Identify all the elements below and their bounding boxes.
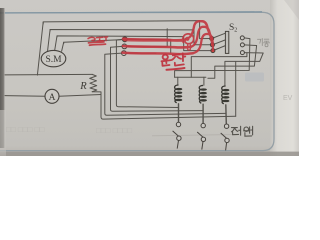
- wire W1 left drop to R line: [37, 22, 43, 75]
- wire W2 drop into S.M: [48, 30, 51, 51]
- R bottom link: [92, 92, 101, 95]
- red elbow down to pivot3: [208, 34, 213, 50]
- red riser 2: [192, 27, 205, 47]
- mid verticals under red: [166, 29, 168, 47]
- contact circles (run contacts): [122, 37, 128, 56]
- coil L3: [222, 86, 229, 104]
- right page edge light band: [270, 0, 299, 156]
- S2 start contacts: [240, 36, 244, 55]
- S2 blades: [212, 33, 226, 38]
- coil L2: [199, 85, 206, 103]
- faint bleed box right: [245, 73, 264, 82]
- figure frame box (blue-gray rounded): [0, 12, 274, 150]
- label 기동 (start): [258, 39, 270, 47]
- svg-text:S.M: S.M: [45, 55, 62, 65]
- red run-wire row1: [123, 39, 185, 40]
- coil2 bottom lead: [202, 104, 204, 123]
- line1 to R top: [5, 73, 92, 76]
- red riser 1: [190, 21, 203, 37]
- bottom switch S1: pole1: [173, 122, 181, 148]
- coil top tie: [175, 76, 206, 78]
- page background: [0, 0, 299, 156]
- left photo dark edge: [0, 8, 5, 148]
- svg-text:R: R: [79, 81, 87, 92]
- svg-text:□□□ □□□□: □□□ □□□□: [96, 126, 132, 135]
- contact circle2 stub + bracket B3: [111, 46, 204, 111]
- red run-wire row3: [123, 53, 194, 54]
- ammeter A: [45, 89, 59, 103]
- branch vertical right: [235, 62, 237, 117]
- S.M machine circle: [41, 50, 66, 66]
- red junction dot: [185, 37, 189, 41]
- svg-text:□□ □□□ □□: □□ □□□ □□: [6, 125, 44, 134]
- svg-text:EV: EV: [283, 95, 293, 102]
- line2 through A: [5, 95, 45, 98]
- red loop around junction: [183, 34, 194, 44]
- red riser 3: [194, 34, 209, 53]
- coil L1: [175, 85, 182, 103]
- underline flourish: [167, 68, 185, 70]
- 전: [172, 54, 181, 60]
- wire W4 to contact row: [64, 40, 123, 44]
- red small rings at row ends: [188, 44, 191, 47]
- resistor R zigzag: [90, 74, 97, 91]
- wire W3: [57, 36, 211, 51]
- red run-wire row2: [123, 46, 191, 47]
- faint bleed line across switch: [152, 135, 232, 136]
- red elbow down to pivot1: [202, 21, 211, 38]
- red annotation strokes: [123, 21, 213, 54]
- red handwriting 운전 (run): [162, 53, 186, 70]
- contact circle1 stub + bracket B4: [116, 39, 178, 107]
- red elbow down to pivot2: [205, 27, 213, 45]
- red scribble small text near top: [88, 37, 108, 45]
- bracket B1 from R/A: [101, 95, 236, 120]
- label 전원 (source): [232, 126, 253, 136]
- wire W2: [50, 30, 211, 45]
- svg-text:A: A: [49, 93, 56, 103]
- faint bleed-through text bottom-left: [6, 125, 132, 135]
- coil1 bottom lead: [178, 104, 180, 123]
- contact circle3 stub + bracket B2: [105, 53, 226, 115]
- S2 bar: [225, 31, 228, 53]
- wire W4 drop into S.M: [62, 42, 64, 51]
- wire W3 drop into S.M: [55, 36, 57, 51]
- 운: [163, 55, 168, 60]
- top-right page corner shade: [284, 0, 299, 20]
- tie riser: [191, 53, 247, 77]
- bottom switch S1: pole2: [197, 123, 205, 149]
- S2 pivot contacts: [210, 37, 215, 53]
- below-frame darker strip: [0, 152, 299, 157]
- bottom switch S1: pole3: [221, 124, 230, 150]
- wire W1 top: [43, 21, 210, 39]
- S2 right contact leads: [175, 38, 250, 77]
- coil3 bottom lead: [225, 105, 228, 124]
